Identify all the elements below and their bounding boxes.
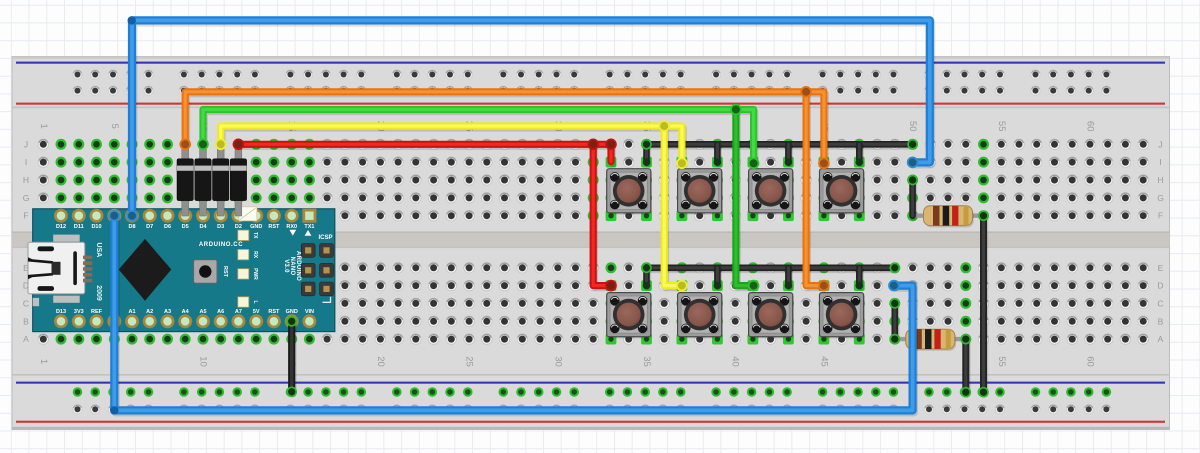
svg-text:30: 30 [552,356,563,367]
svg-text:A1: A1 [128,309,135,315]
svg-text:50: 50 [907,121,918,132]
wire black GND wire [292,321,293,394]
bottom power rail red line [16,421,1165,423]
wire red jumper D2 to S1 [238,144,612,163]
svg-text:D8: D8 [128,224,135,230]
Arduino MCU chip (diamond) [119,239,172,301]
wire black drop bottom col35 [647,268,648,288]
svg-text:J: J [24,139,28,149]
svg-text:ICSP: ICSP [318,235,332,241]
svg-text:A7: A7 [235,309,242,315]
Arduino bottom pin row [54,314,316,328]
svg-text:A3: A3 [164,309,171,315]
wire black col53 to rail [966,339,967,394]
wire black drop bottom col43 [788,268,789,288]
svg-text:ARDUINO.CC: ARDUINO.CC [199,242,243,248]
svg-text:G: G [1157,193,1164,203]
wire black drop bottom col39 [717,268,718,288]
svg-text:I: I [25,157,27,167]
svg-text:GND: GND [250,224,262,230]
svg-text:TX: TX [252,232,258,239]
4-pin header J1 on D5..D2 [177,149,247,216]
svg-text:USA: USA [95,243,102,258]
wire green jumper to S7 [736,110,755,288]
svg-text:B: B [1158,316,1164,326]
bottom power rail blue line [16,382,1165,384]
pushbutton S7 [748,280,794,344]
svg-text:35: 35 [641,356,652,367]
svg-text:VIN: VIN [305,309,314,315]
svg-text:REF: REF [91,309,103,315]
svg-text:RX: RX [252,251,258,259]
svg-text:20: 20 [375,356,386,367]
svg-text:25: 25 [464,356,475,367]
wire black drop top col47 [859,144,860,164]
wire orange jumper to S8 [806,92,825,288]
Arduino top pin row [54,209,316,223]
wire yellow jumper to S6 [664,126,683,288]
svg-text:D: D [1157,281,1163,291]
wire black bus bottom [647,268,897,270]
svg-text:H: H [1157,175,1163,185]
svg-text:PWR: PWR [252,268,258,280]
svg-text:5: 5 [109,124,120,129]
svg-text:C: C [23,298,29,308]
wire green jumper D4 to S3 [203,110,755,166]
svg-text:D3: D3 [217,224,224,230]
svg-text:E: E [1158,263,1164,273]
svg-text:60: 60 [1085,121,1096,132]
svg-text:D13: D13 [56,309,66,315]
svg-text:D12: D12 [56,224,66,230]
pushbutton S3 [748,157,794,221]
svg-text:RST: RST [222,266,228,278]
wire black drop top col39 [717,144,718,164]
svg-text:60: 60 [1085,356,1096,367]
svg-text:B: B [23,316,29,326]
pushbutton S1 [606,157,652,221]
top power rail blue line [16,62,1165,64]
pushbutton S5 [606,280,652,344]
svg-text:1: 1 [38,359,49,364]
svg-text:TX1: TX1 [304,224,314,230]
svg-text:F: F [1158,211,1163,221]
wire black drop bottom col47 [859,268,860,288]
svg-text:V3.0: V3.0 [283,259,289,273]
wire black drop top col35 [647,144,648,164]
svg-text:RX0: RX0 [286,224,297,230]
wire black col54 to rail [984,216,985,395]
wire orange jumper D5 to S4 [185,92,825,166]
Arduino RST button [194,260,228,283]
Arduino LEDs TX RX PWR L [238,230,258,307]
breadboard body [12,57,1170,430]
svg-text:1: 1 [38,124,49,129]
svg-text:G: G [23,193,30,203]
wire end connectors [109,16,988,414]
svg-text:F: F [23,211,28,221]
svg-text:L: L [252,300,258,303]
pushbutton S4 [819,157,865,221]
Arduino Nano U1 board [33,209,335,332]
svg-text:D7: D7 [146,224,153,230]
svg-text:10: 10 [198,356,209,367]
svg-text:A: A [23,334,29,344]
svg-text:3V3: 3V3 [74,309,84,315]
svg-text:A2: A2 [146,309,153,315]
top power rail holes [73,70,1111,96]
Arduino TX sticker [239,207,257,221]
row letter labels [23,139,1164,344]
top power rail red line [16,103,1165,105]
USB connector of Arduino [28,242,92,294]
Arduino RX0/TX1 direction markers [289,230,296,236]
svg-text:RST: RST [268,309,280,315]
svg-text:A5: A5 [199,309,206,315]
svg-text:I: I [1159,157,1161,167]
pushbutton S2 [677,157,724,221]
wire red jumper to S5 [593,144,612,287]
svg-text:H: H [23,175,29,185]
bottom power rail holes [73,387,1112,414]
svg-text:2009: 2009 [95,285,102,301]
resistor R1 [913,206,984,228]
pushbutton S6 [677,280,724,344]
Arduino ICSP header [301,235,333,302]
wire black col50 H-F [913,180,914,218]
pushbutton S8 [819,280,865,344]
main grid holes top half [38,139,1148,221]
Arduino silkscreen texts USA 2009 [95,243,102,301]
svg-text:C: C [1157,298,1163,308]
wire blue jumper D8 loop [132,20,931,217]
svg-text:D4: D4 [199,224,207,230]
svg-text:A6: A6 [217,309,224,315]
wire black col49 C-A [895,303,896,341]
svg-text:D5: D5 [182,224,189,230]
svg-text:40: 40 [730,356,741,367]
svg-text:GND: GND [286,309,298,315]
svg-text:5V: 5V [253,309,260,315]
svg-text:55: 55 [996,121,1007,132]
wire black drop top col43 [788,144,789,164]
svg-text:D11: D11 [74,224,84,230]
Arduino pin labels [56,224,314,315]
wire blue jumper D9 loop [114,216,914,413]
wire black bus top [647,144,914,146]
main grid holes bottom half [38,262,1148,344]
wire yellow jumper D3 to S2 [221,126,684,165]
svg-text:J: J [1158,139,1162,149]
svg-text:55: 55 [996,356,1007,367]
svg-text:A: A [1158,334,1164,344]
svg-text:A4: A4 [182,309,190,315]
Arduino NANO V3.0 labels [283,251,301,281]
resistor R2 [895,329,966,351]
svg-text:D2: D2 [235,224,242,230]
svg-text:D10: D10 [91,224,101,230]
svg-text:RST: RST [268,224,280,230]
svg-text:45: 45 [818,356,829,367]
svg-text:D6: D6 [164,224,171,230]
column number labels [38,121,1096,367]
